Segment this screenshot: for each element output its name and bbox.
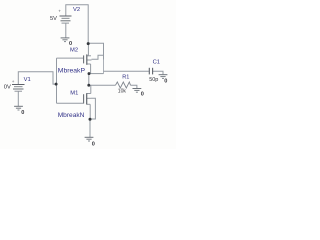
- svg-text:M2: M2: [70, 48, 78, 54]
- svg-text:0: 0: [164, 79, 167, 85]
- svg-text:+: +: [58, 9, 61, 14]
- svg-text:0: 0: [92, 142, 95, 148]
- svg-text:C1: C1: [153, 59, 160, 65]
- svg-text:5V: 5V: [50, 16, 57, 22]
- svg-text:0: 0: [141, 91, 144, 97]
- svg-text:10k: 10k: [118, 88, 127, 94]
- svg-text:MbreakP: MbreakP: [58, 68, 86, 75]
- svg-text:R1: R1: [122, 74, 129, 80]
- svg-text:0: 0: [69, 41, 72, 47]
- svg-text:MbreakN: MbreakN: [58, 112, 85, 119]
- svg-text:V1: V1: [24, 77, 31, 83]
- svg-text:50p: 50p: [149, 77, 158, 83]
- svg-text:0: 0: [21, 110, 24, 116]
- svg-text:+: +: [12, 79, 15, 84]
- svg-text:0V: 0V: [4, 85, 11, 91]
- svg-text:V2: V2: [73, 7, 80, 13]
- svg-text:M1: M1: [70, 90, 78, 96]
